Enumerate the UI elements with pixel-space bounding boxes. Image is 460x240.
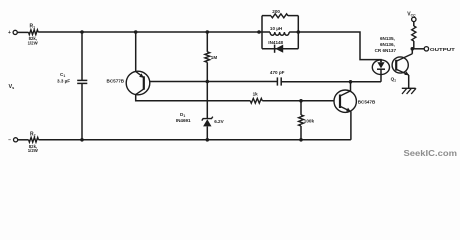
wire: - terminal to R2 [18, 139, 29, 141]
svg-text:470 pF: 470 pF [270, 70, 285, 75]
resistor 1k [250, 92, 262, 104]
wire: BC547B collector up to LED cathode node [350, 82, 352, 91]
wire: bottom rail [39, 139, 351, 141]
capacitor 470 pF [270, 70, 285, 86]
wire: Vcc to pull-up resistor [413, 22, 415, 26]
wire: 1k to BC547B base [262, 100, 334, 102]
resistor R2 [28, 131, 39, 153]
node: 1k wire / 100k [299, 99, 303, 103]
svg-text:6N135,: 6N135, [380, 36, 395, 41]
node: output [411, 47, 415, 51]
capacitor C1 3.3uF [57, 72, 87, 83]
wire: top rail to LED anode corner [298, 32, 381, 62]
opto labels 6N135 / 6N136 / CR 6N137 [375, 36, 397, 53]
diode IN4148 (bottom branch) [262, 40, 298, 53]
svg-text:IN4691: IN4691 [176, 118, 191, 123]
wire: 470pF to LED cathode [281, 81, 381, 83]
node: base wire / 1M-zener [206, 80, 210, 84]
wire: Q1 emitter down to ground [408, 75, 410, 88]
svg-text:1k: 1k [253, 92, 259, 97]
wire: BC577B collector down and right [136, 95, 251, 101]
zener diode D1 IN4691 6.2V [176, 112, 225, 127]
wire: node to OUTPUT terminal [414, 48, 424, 50]
svg-text:10 µH: 10 µH [270, 26, 283, 31]
node: top rail / BC577B emitter [134, 30, 138, 34]
Vcc terminal [407, 11, 416, 21]
svg-text:−: − [8, 138, 11, 144]
ground [402, 88, 416, 94]
wire: resistor to output node [413, 41, 415, 49]
phototransistor Q1 [391, 54, 413, 83]
resistor 1M [205, 52, 217, 63]
svg-text:200: 200 [272, 9, 280, 14]
wire: 100k to bottom rail [300, 126, 302, 140]
opto LED (emitter diode of 6N135) [372, 60, 389, 75]
svg-text:IN4148: IN4148 [268, 40, 283, 45]
terminal + (positive input) [8, 30, 17, 36]
wire: BC547B emitter down to bottom rail corner [350, 111, 352, 139]
terminal - (negative input) [8, 138, 18, 144]
svg-text:6N136,: 6N136, [380, 42, 395, 47]
wire: node down to 100k [300, 101, 302, 115]
resistor R1 [28, 24, 39, 46]
wire: C1 down to bottom rail [81, 84, 83, 140]
node: top rail / filter left [257, 30, 261, 34]
svg-text:CR 6N137: CR 6N137 [375, 48, 397, 53]
svg-text:1M: 1M [211, 55, 218, 60]
resistor 200 (top branch) [262, 9, 298, 18]
transistor BC547B (NPN) [334, 90, 376, 112]
node: bottom rail / 100k [299, 138, 303, 142]
wire: 1M to node A and down to zener [206, 62, 208, 118]
wire: + terminal to R1 [17, 31, 28, 33]
transistor BC577B (PNP) [107, 71, 150, 95]
node: LED cathode wire / BC547B collector [349, 80, 353, 84]
svg-text:BC577B: BC577B [107, 78, 125, 83]
svg-text:BC547B: BC547B [358, 99, 376, 104]
node: bottom rail / zener [206, 138, 210, 142]
node: top rail / 1M [206, 30, 210, 34]
terminal OUTPUT [424, 47, 455, 53]
node: filter right on rail [297, 30, 301, 34]
wire: left connector bar of filter group [261, 16, 263, 49]
svg-text:1/2W: 1/2W [28, 148, 39, 153]
wire: top rail down to BC577B emitter [135, 32, 137, 71]
wire: top rail [38, 31, 262, 33]
inductor 10uH (middle branch, on main rail) [262, 26, 298, 35]
wire: zener to bottom rail [206, 126, 208, 139]
wire: top rail down to C1 [81, 32, 83, 80]
svg-text:SeekIC.com: SeekIC.com [404, 148, 458, 158]
svg-text:100k: 100k [304, 119, 315, 124]
svg-text:+: + [8, 30, 11, 36]
wire: BC577B base to the right (node A) [150, 81, 278, 83]
resistor 100k [299, 115, 315, 126]
node: bottom rail / C1 [80, 138, 84, 142]
svg-text:6.2V: 6.2V [214, 119, 224, 124]
wire: right connector bar of filter group [297, 16, 299, 49]
svg-text:1/2W: 1/2W [28, 41, 39, 46]
wire: LED cathode down to node wire [380, 69, 382, 82]
wire: Q1 collector up to output node [411, 49, 413, 54]
svg-text:3.3 µF: 3.3 µF [57, 79, 70, 84]
svg-text:OUTPUT: OUTPUT [430, 47, 455, 53]
wire: top rail to 1M [206, 32, 208, 52]
node: top rail / C1 [80, 30, 84, 34]
pull-up resistor [412, 26, 416, 41]
